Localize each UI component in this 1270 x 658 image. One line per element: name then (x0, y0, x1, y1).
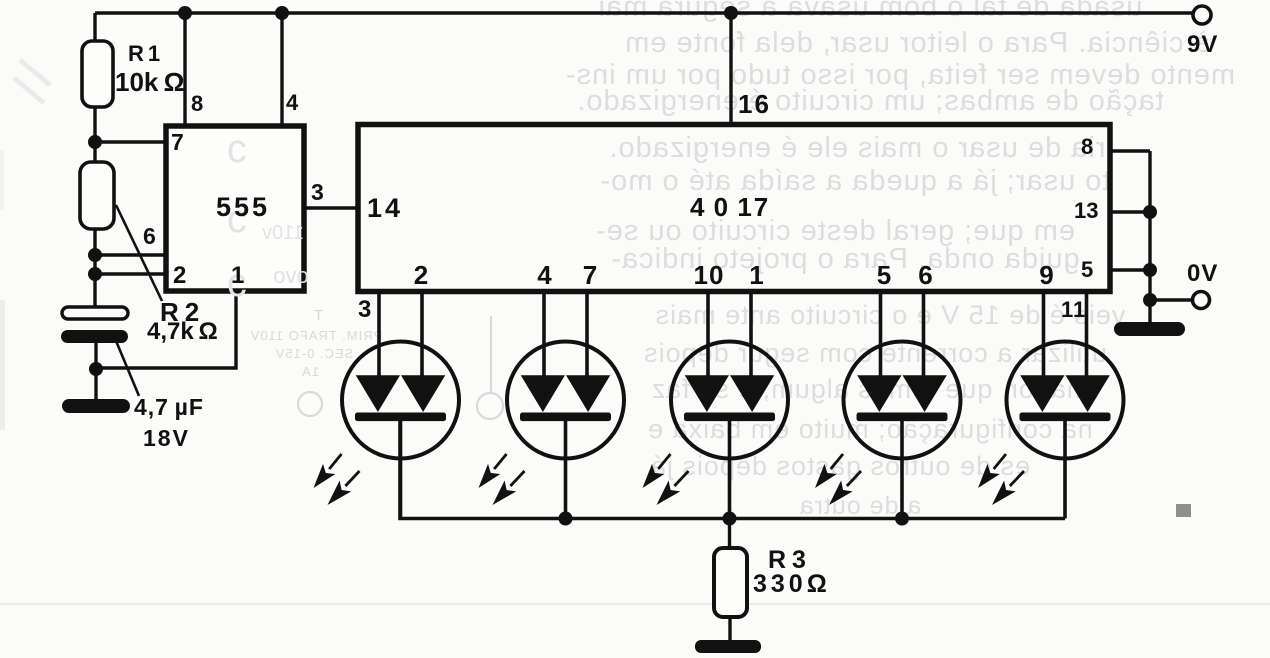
svg-text:4 0 17: 4 0 17 (690, 192, 770, 222)
svg-text:330Ω: 330Ω (753, 570, 831, 598)
svg-text:555: 555 (216, 192, 270, 222)
svg-text:0V: 0V (1187, 260, 1218, 287)
svg-text:3: 3 (358, 296, 372, 323)
svg-text:1: 1 (231, 262, 245, 289)
svg-text:tação de ambas; um circuito é: tação de ambas; um circuito é energizado… (576, 85, 1163, 117)
svg-text:3: 3 (311, 179, 325, 205)
svg-text:T: T (313, 307, 323, 324)
svg-text:16: 16 (738, 89, 771, 119)
svg-text:SEC. 0-15V: SEC. 0-15V (275, 346, 354, 361)
svg-text:7: 7 (171, 129, 185, 155)
svg-text:110v: 110v (262, 222, 304, 244)
svg-text:13: 13 (1074, 198, 1098, 223)
svg-text:7: 7 (583, 260, 598, 290)
svg-text:4: 4 (537, 260, 552, 290)
svg-text:8: 8 (191, 91, 204, 116)
svg-text:4,7 µF: 4,7 µF (134, 394, 204, 420)
svg-text:14: 14 (367, 193, 403, 223)
svg-text:8: 8 (1081, 134, 1094, 159)
svg-text:6: 6 (918, 260, 933, 290)
svg-text:ria de usar o mais ele é energ: ria de usar o mais ele é energizado. (608, 132, 1105, 164)
svg-text:R1: R1 (128, 41, 164, 66)
svg-text:ovo: ovo (273, 263, 308, 288)
svg-text:1: 1 (749, 260, 764, 290)
svg-text:2: 2 (173, 262, 187, 289)
svg-text:1A: 1A (301, 364, 319, 379)
svg-text:9V: 9V (1187, 31, 1218, 58)
svg-text:5: 5 (877, 260, 892, 290)
svg-text:PRIM. TRAFO 110V: PRIM. TRAFO 110V (250, 328, 383, 343)
svg-text:6: 6 (143, 223, 157, 249)
svg-text:ɔ: ɔ (227, 127, 247, 171)
svg-text:à ciência. Para o leitor usar,: à ciência. Para o leitor usar, dela font… (624, 27, 1210, 59)
svg-text:10: 10 (694, 260, 725, 290)
svg-text:2: 2 (414, 260, 429, 290)
svg-text:11: 11 (1061, 297, 1086, 322)
svg-text:4,7k Ω: 4,7k Ω (147, 318, 218, 345)
svg-text:9: 9 (1039, 260, 1054, 290)
svg-text:5: 5 (1081, 257, 1094, 282)
svg-text:18V: 18V (143, 425, 190, 451)
svg-text:4: 4 (286, 90, 299, 115)
svg-text:veis é de 15 V e o circuito an: veis é de 15 V e o circuito ante mais (655, 300, 1126, 330)
svg-text:to usar; já a queda a saída at: to usar; já a queda a saída até o mo- (600, 165, 1111, 197)
svg-text:guida onda. Para o projeto ind: guida onda. Para o projeto indica- (610, 243, 1079, 275)
svg-text:10k Ω: 10k Ω (115, 67, 184, 97)
